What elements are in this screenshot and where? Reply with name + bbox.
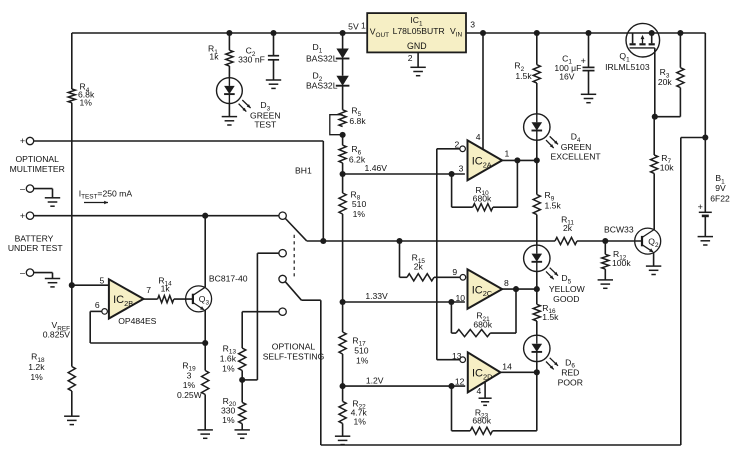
LED D5 yellow good [524, 245, 550, 271]
wire Q2 collector to R7 [653, 173, 655, 229]
resistor R13 [239, 348, 246, 370]
svg-text:3: 3 [470, 19, 475, 29]
ground below R18 [64, 415, 79, 417]
terminal battery plus [26, 212, 33, 219]
svg-text:+: + [20, 211, 25, 221]
svg-text:BATTERY: BATTERY [15, 234, 54, 244]
svg-text:+: + [698, 202, 703, 212]
node C1 top [585, 30, 591, 36]
node R5 bottom [340, 132, 346, 138]
wire R16 to D6 [536, 321, 538, 335]
svg-text:680k: 680k [472, 416, 491, 426]
node gate R3 R7 junction [652, 114, 658, 120]
node 1.2V [342, 354, 344, 386]
svg-text:IRLML5103: IRLML5103 [605, 62, 650, 72]
svg-text:9V: 9V [715, 183, 726, 193]
svg-text:–: – [20, 267, 25, 277]
pin 6 bubble IC2B [102, 309, 108, 315]
mechanical link dashed [293, 235, 295, 278]
svg-text:4: 4 [477, 386, 482, 396]
svg-text:GREEN: GREEN [561, 142, 592, 152]
svg-text:510: 510 [352, 199, 367, 209]
resistor R22 [342, 386, 344, 401]
svg-text:GOOD: GOOD [553, 294, 579, 304]
svg-text:1k: 1k [209, 52, 219, 62]
svg-text:510: 510 [354, 345, 369, 355]
svg-text:MULTIMETER: MULTIMETER [10, 164, 65, 174]
svg-text:1.5k: 1.5k [545, 200, 562, 210]
svg-text:1.6k: 1.6k [220, 354, 237, 364]
svg-text:13: 13 [452, 351, 462, 361]
resistor R11 [555, 237, 577, 244]
wire contact D to R13 top [242, 311, 279, 313]
wire IC2A pin2 to IC2D pin13 bus [436, 149, 438, 360]
terminal battery minus [26, 269, 33, 276]
svg-text:1k: 1k [161, 283, 171, 293]
ground below R19 [198, 429, 213, 431]
ground below R20 [235, 429, 250, 431]
svg-text:8: 8 [504, 278, 509, 288]
wire D6 to output node [536, 362, 538, 373]
wire 1.33V to IC2C pin 10 [343, 301, 465, 303]
svg-text:6: 6 [95, 300, 100, 310]
svg-text:3: 3 [459, 164, 464, 174]
svg-text:OPTIONAL: OPTIONAL [272, 342, 316, 352]
op-amp IC2C [468, 269, 503, 308]
transistor Q3 BC817-40 [186, 286, 212, 312]
wire R8 to 1.33V node [342, 214, 344, 302]
svg-text:2: 2 [408, 53, 413, 63]
svg-text:10k: 10k [660, 163, 675, 173]
node D1 top [340, 30, 346, 36]
pin 5 wire IC2B [72, 284, 109, 286]
node switch blade junction [320, 238, 326, 244]
ground below R12 [598, 279, 613, 281]
wire multimeter plus to BH1 [34, 140, 324, 142]
svg-text:14: 14 [502, 362, 512, 372]
svg-text:12: 12 [455, 377, 465, 387]
svg-text:1: 1 [505, 148, 510, 158]
pin 4 wire IC2A to 5V [480, 30, 486, 36]
resistor R15 [399, 241, 401, 277]
svg-text:6.2k: 6.2k [349, 155, 366, 165]
feedback resistor R23 [451, 386, 453, 431]
wire 5V/9V top rail [72, 32, 367, 34]
pin 14 output IC2D [501, 371, 537, 373]
svg-text:BAS32L: BAS32L [306, 81, 338, 91]
jumper loop around R5 [330, 115, 343, 135]
svg-text:BC817-40: BC817-40 [209, 274, 248, 284]
op-amp IC2A [468, 140, 503, 180]
node 1.33V [340, 299, 346, 305]
wire contact B to R13-R20 junction [257, 252, 279, 254]
node R13 R20 junction [239, 377, 245, 383]
resistor R16 [536, 289, 538, 304]
resistor R20 [239, 402, 246, 423]
node Q3 collector tap [202, 213, 208, 219]
arrow test current [84, 202, 108, 204]
resistor R7 [651, 155, 658, 173]
battery B1 [699, 211, 712, 213]
ground Q2 emitter [646, 265, 661, 267]
wire Q1 gate [654, 48, 656, 117]
svg-text:1.5k: 1.5k [515, 71, 532, 81]
feedback resistor R10 [514, 157, 520, 163]
op-amp IC2D [468, 352, 501, 392]
svg-text:1.5k: 1.5k [542, 312, 559, 322]
terminal multimeter plus [26, 137, 33, 144]
node V_REF junction [69, 282, 75, 288]
svg-text:0.25W: 0.25W [177, 390, 203, 400]
LED D3 green test [217, 78, 243, 104]
svg-text:UNDER TEST: UNDER TEST [8, 243, 64, 253]
wire Q2 emitter to ground [653, 252, 655, 266]
svg-text:POOR: POOR [558, 378, 583, 388]
svg-text:BAS32L: BAS32L [306, 53, 338, 63]
svg-text:7: 7 [146, 285, 151, 295]
switch blade 1 [285, 219, 306, 241]
wire D3 to ground [228, 103, 230, 116]
svg-text:1.33V: 1.33V [365, 291, 388, 301]
ground below B1 [698, 236, 713, 238]
svg-text:680k: 680k [473, 319, 492, 329]
wire 1.2V to IC2D pin 12 [343, 385, 466, 387]
wire R1 to D3 [228, 66, 230, 78]
svg-text:16V: 16V [559, 72, 575, 82]
svg-text:9: 9 [452, 267, 457, 277]
ground IC1 pin 2 [410, 66, 425, 68]
svg-text:330: 330 [221, 405, 236, 415]
svg-text:BCW33: BCW33 [604, 225, 634, 235]
wire R20 to ground [241, 424, 243, 430]
terminal multimeter minus [26, 185, 33, 192]
pin 9 bubble IC2C [460, 275, 466, 281]
node R1 top [226, 30, 232, 36]
wire R12 to ground [604, 269, 606, 280]
svg-text:1.2k: 1.2k [28, 362, 45, 372]
pin 13 bubble IC2D [460, 357, 466, 363]
diode D1 BAS32L [342, 33, 344, 49]
wire R9 to D5 [536, 215, 538, 246]
resistor R14 [158, 296, 174, 303]
resistor R17 [342, 302, 344, 332]
svg-text:680k: 680k [473, 194, 492, 204]
resistor R12 [604, 241, 606, 254]
node IC2C output D5 [534, 286, 540, 292]
svg-text:2k: 2k [563, 223, 573, 233]
wire R19 to ground [204, 395, 206, 430]
node R3 top [677, 30, 683, 36]
svg-text:4: 4 [476, 132, 481, 142]
svg-text:1%: 1% [354, 416, 367, 426]
svg-text:5: 5 [100, 275, 105, 285]
node IC2D output D6 [534, 369, 540, 375]
wire VBAT rail [323, 240, 555, 242]
wire 1.46V to IC2A pin 3 [343, 173, 465, 175]
wire D5 to output node [536, 271, 538, 289]
svg-text:OP484ES: OP484ES [118, 316, 156, 326]
resistor R18 [68, 367, 75, 392]
op-amp IC2B [109, 279, 144, 318]
wire R11 to Q2 base [577, 240, 642, 242]
svg-text:1%: 1% [356, 355, 369, 365]
switch blade 2 [279, 275, 286, 282]
svg-text:1.2V: 1.2V [366, 375, 384, 385]
resistor R1 [228, 33, 230, 50]
ground below C2 [266, 79, 281, 81]
svg-text:OPTIONAL: OPTIONAL [15, 154, 59, 164]
svg-text:1: 1 [361, 21, 366, 31]
node IC2A output D4 [534, 157, 540, 163]
svg-text:10: 10 [455, 293, 465, 303]
pin 7 output IC2B [144, 298, 158, 300]
resistor R2 [536, 33, 538, 65]
ground below D3 [222, 116, 237, 118]
LED D6 red poor [524, 335, 550, 361]
svg-text:6F22: 6F22 [710, 193, 730, 203]
wire R14 to Q3 base [174, 298, 193, 300]
wire Q3 collector [204, 216, 206, 288]
ground IC2D pin4 [479, 397, 492, 399]
svg-text:+: + [20, 136, 25, 146]
pin 1 output IC2A [502, 159, 537, 161]
node R15 branch [396, 238, 402, 244]
svg-text:2k: 2k [414, 262, 424, 272]
svg-text:BH1: BH1 [295, 165, 312, 175]
svg-text:SELF-TESTING: SELF-TESTING [263, 352, 325, 362]
resistor R5 [339, 110, 346, 127]
wire left V_REF bus [71, 33, 73, 89]
resistor R19 [204, 343, 206, 371]
svg-text:1.46V: 1.46V [365, 163, 388, 173]
svg-text:L78L05BUTR: L78L05BUTR [393, 26, 445, 36]
switch contact D [279, 308, 286, 315]
switch contact A [279, 212, 286, 219]
ground below R22 [335, 435, 350, 437]
resistor R9 [536, 160, 538, 194]
wire R2 to D4 [536, 83, 538, 114]
wire multimeter minus to ground [34, 188, 53, 190]
svg-text:20k: 20k [658, 77, 673, 87]
svg-text:–: – [20, 183, 25, 193]
svg-text:GND: GND [407, 41, 427, 51]
node Q1 drain [649, 30, 655, 36]
switch contact B [279, 250, 286, 257]
svg-text:EXCELLENT: EXCELLENT [551, 152, 602, 162]
svg-text:5V: 5V [348, 21, 359, 31]
wire D2 to R5 [342, 86, 344, 110]
capacitor C1 [588, 33, 590, 67]
capacitor C2 [273, 33, 275, 56]
svg-text:+: + [581, 56, 586, 66]
node R2 top [534, 30, 540, 36]
node 1.46V [342, 163, 344, 174]
pin 2 bubble IC2A [460, 146, 466, 152]
wire battery minus to ground [34, 272, 53, 274]
diode D2 BAS32L [342, 59, 344, 76]
resistor R6 [342, 135, 344, 145]
ground multimeter minus [45, 197, 60, 199]
wire feedback to pin 6 [90, 310, 102, 312]
wire R22 to ground [342, 423, 344, 436]
wire R3 to gate node [679, 88, 681, 117]
svg-text:1%: 1% [353, 209, 366, 219]
svg-text:1%: 1% [183, 380, 196, 390]
svg-text:1%: 1% [222, 363, 235, 373]
resistor R4 [68, 89, 75, 103]
node Q3 emitter feedback [202, 340, 208, 346]
resistor R8 [342, 174, 344, 193]
regulator IC1 L78L05BUTR [367, 13, 466, 52]
wire 9V loop [681, 137, 706, 139]
svg-text:1%: 1% [222, 415, 235, 425]
pin 4 ground stub IC2D [484, 382, 486, 398]
wire top right corner to B1 [704, 33, 706, 212]
wire battery plus [34, 215, 279, 217]
svg-text:1%: 1% [80, 98, 93, 108]
node C2 top [270, 30, 276, 36]
ground battery minus [45, 278, 60, 280]
transistor Q2 BCW33 [635, 228, 661, 254]
svg-text:6.8k: 6.8k [349, 116, 366, 126]
svg-text:TEST: TEST [254, 119, 277, 129]
pin 8 output IC2C [502, 288, 537, 290]
svg-text:100k: 100k [612, 258, 631, 268]
svg-text:330 nF: 330 nF [238, 54, 265, 64]
ground below C1 [581, 93, 596, 95]
node R12 branch [602, 238, 608, 244]
node 9V branch [702, 134, 708, 140]
wire Q3 emitter [204, 310, 206, 343]
wire D4 to output node [536, 140, 538, 160]
feedback resistor R21 [513, 286, 519, 292]
transistor Q1 IRLML5103 p-mosfet [626, 23, 660, 57]
svg-text:YELLOW: YELLOW [549, 284, 586, 294]
resistor R3 [679, 33, 681, 68]
svg-text:2: 2 [455, 140, 460, 150]
svg-text:0.825V: 0.825V [43, 329, 71, 339]
LED D4 green excellent [524, 114, 550, 140]
svg-text:1%: 1% [30, 372, 43, 382]
svg-text:RED: RED [561, 367, 579, 377]
